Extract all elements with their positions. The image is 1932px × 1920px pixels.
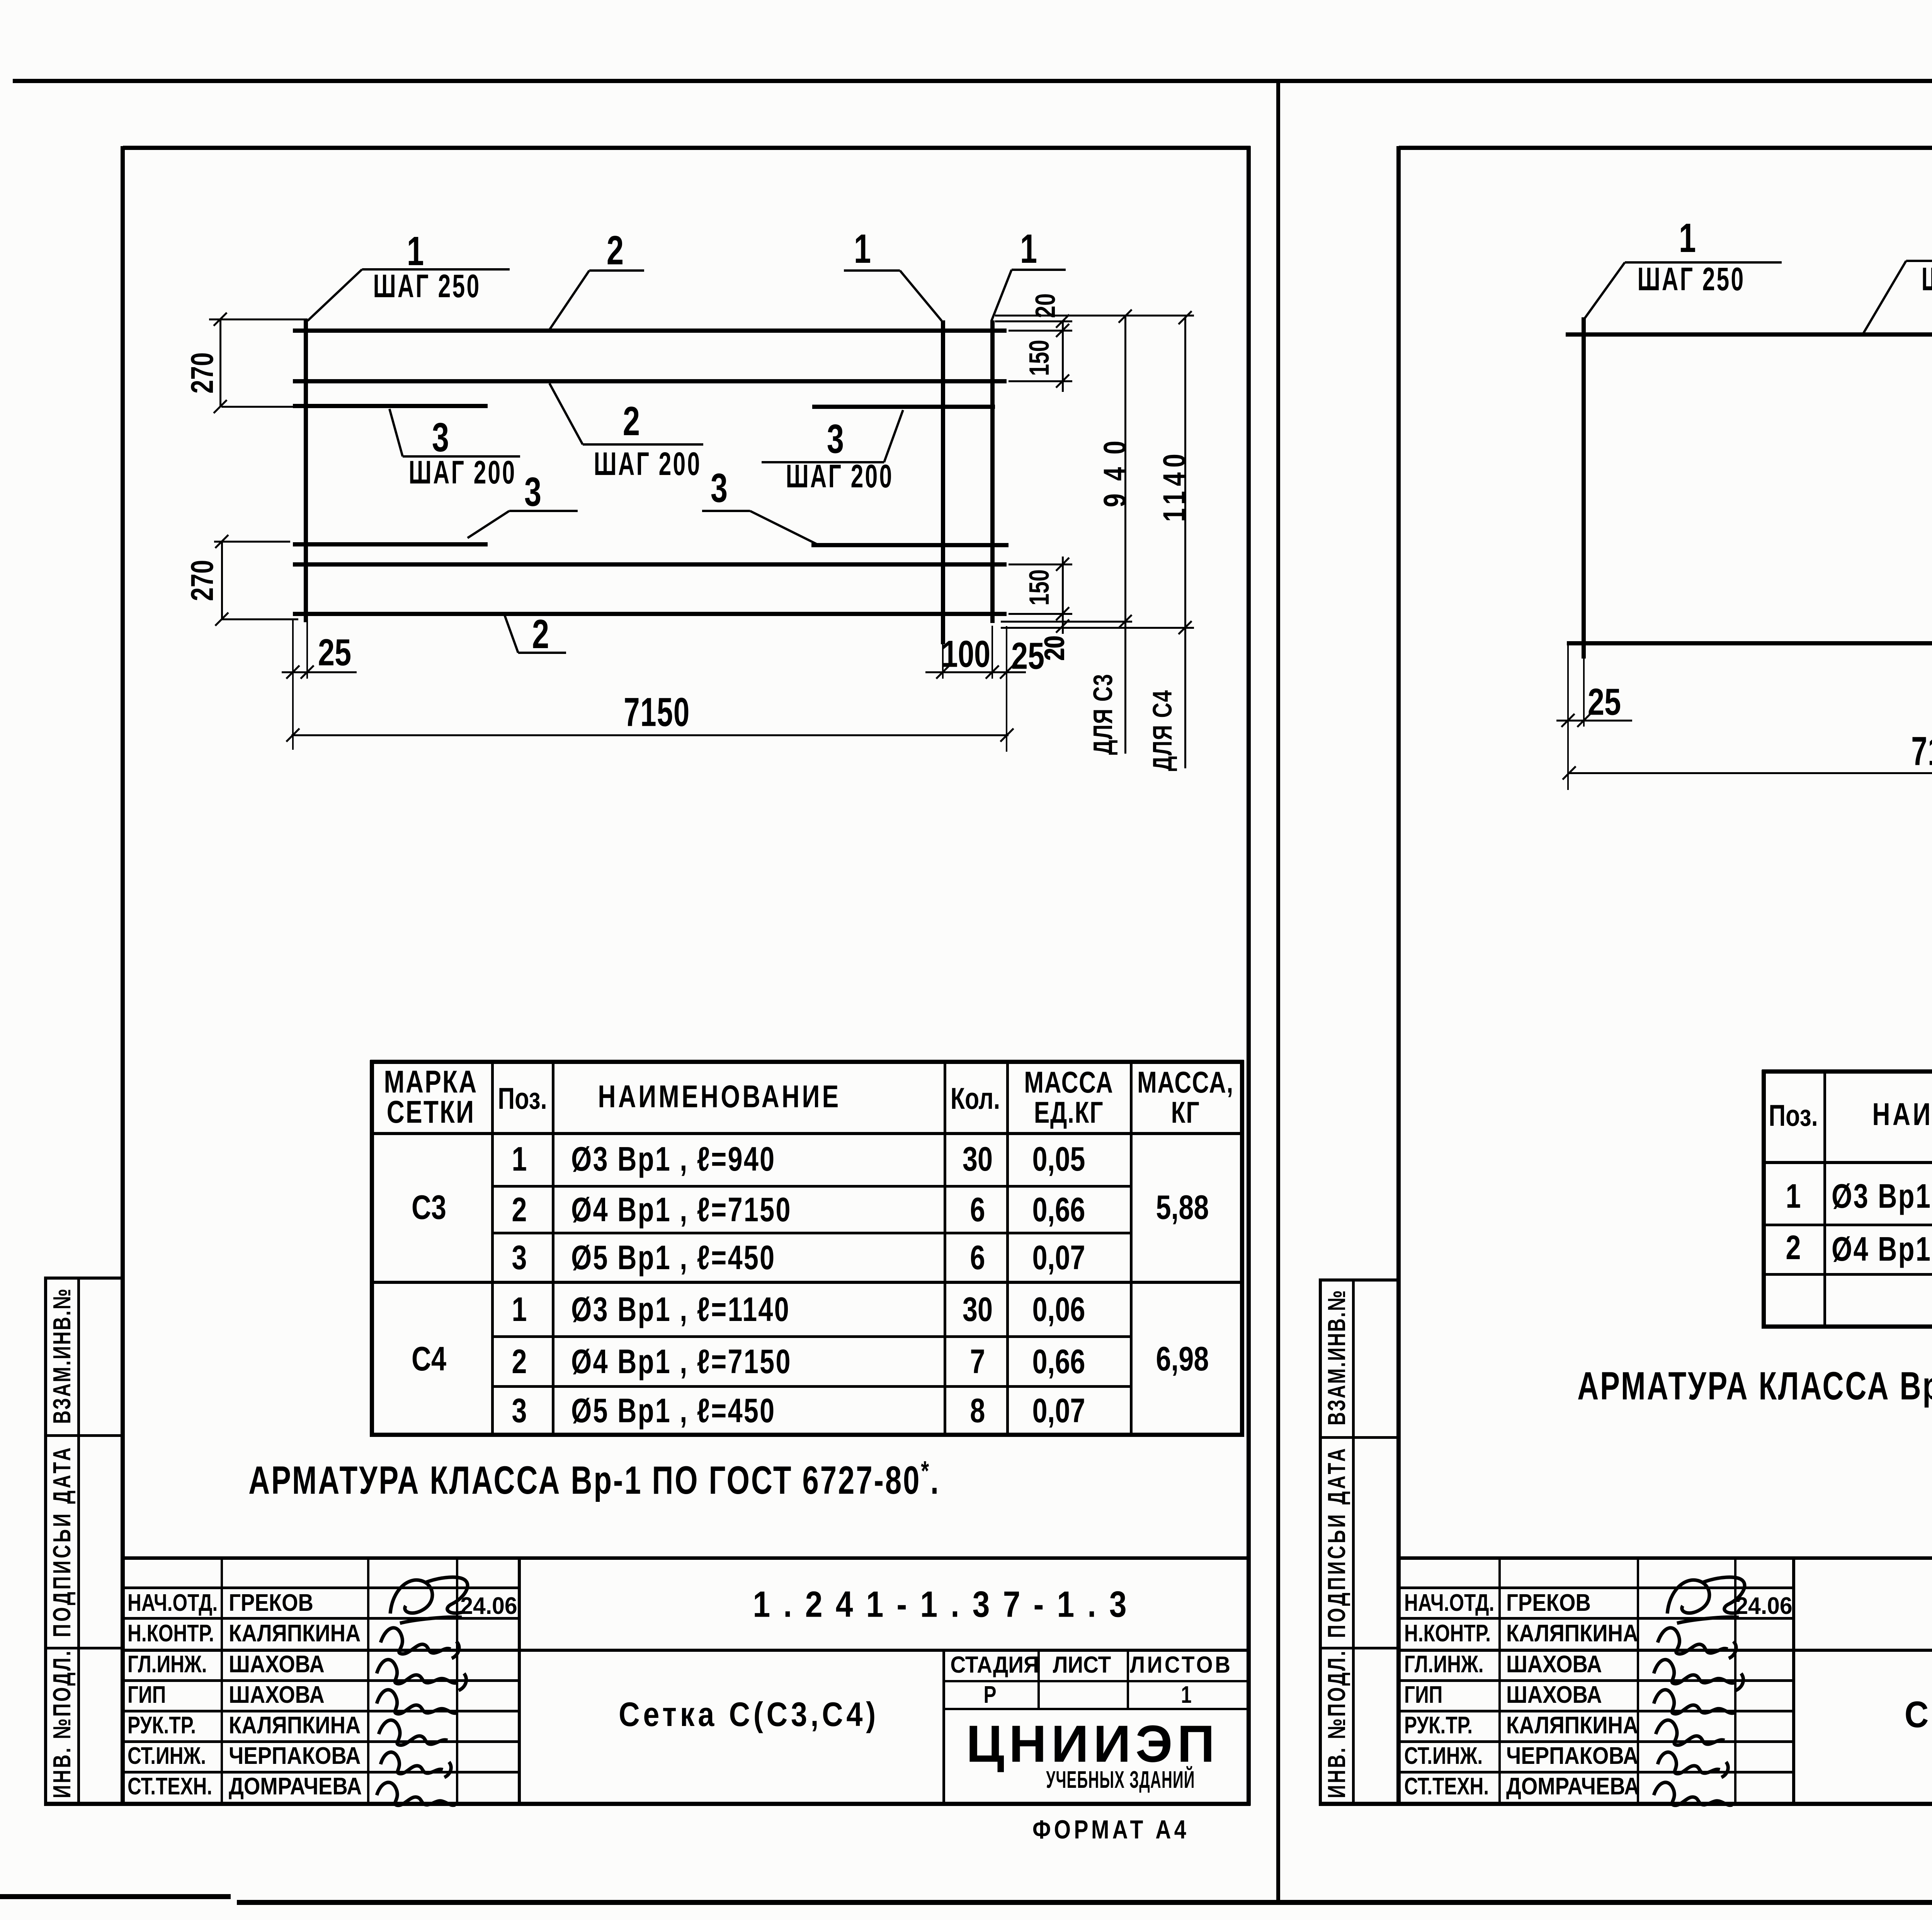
- right wire 1 vertical left: [1582, 317, 1586, 659]
- left leader 3e diagonal: [750, 511, 818, 545]
- right frame left: [1396, 146, 1401, 1806]
- left title row line 3: [123, 1679, 520, 1682]
- left title job СТ.ТЕХН.: [128, 1775, 212, 1799]
- left stadiya value P: [983, 1683, 996, 1707]
- label 2 bottom: [532, 614, 549, 655]
- wire 2 row5 full: [293, 562, 1007, 567]
- dim 1140 text: [1159, 449, 1190, 522]
- right table header line: [1762, 1161, 1932, 1164]
- signature grekov: [390, 1577, 468, 1623]
- dim 100 ext v1: [942, 644, 944, 679]
- scan top border line: [13, 79, 1932, 83]
- left mesh leader diagonal to left wire: [308, 269, 362, 321]
- wire 3 row3 left short: [293, 404, 488, 408]
- table row 3 Ø5 Вр1 , ℓ=450: [512, 1394, 527, 1428]
- right table top: [1762, 1069, 1932, 1074]
- header kol: [951, 1083, 1000, 1113]
- right title job ГЛ.ИНЖ.: [1404, 1653, 1484, 1677]
- dim 25 right ext: [1006, 626, 1007, 752]
- rotated text dlya C3: [1089, 674, 1116, 755]
- left sidebar line podp/inv: [44, 1647, 124, 1649]
- left title row line 4: [123, 1710, 520, 1712]
- table row 1 Ø3 Вр1 , ℓ=1140: [512, 1292, 527, 1326]
- left title name ЧЕРПАКОВА: [229, 1744, 361, 1768]
- left listov value 1: [1181, 1683, 1192, 1707]
- wire 2 row2 full: [293, 379, 1007, 383]
- wire 1 vertical right inner: [941, 320, 945, 644]
- left title job НАЧ.ОТД.: [128, 1591, 218, 1615]
- dim 270 top line: [219, 319, 221, 407]
- left note armatura klassa: [248, 1457, 940, 1500]
- label 1 at v1: [854, 228, 871, 269]
- dim 1140 line: [1184, 317, 1186, 768]
- chain ext top edge: [995, 320, 1072, 322]
- right dim 7150 line: [1568, 772, 1932, 774]
- header massa ed: [1024, 1067, 1113, 1097]
- left table row line r2: [492, 1232, 1132, 1234]
- left title row line 6: [123, 1771, 520, 1774]
- table row 1 Ø3 Вр1 , ℓ=940: [512, 1142, 527, 1176]
- right date 24.06: [1735, 1594, 1792, 1618]
- right title name ДОМРАЧЕВА: [1506, 1775, 1639, 1799]
- right title job СТ.ИНЖ.: [1404, 1744, 1483, 1768]
- dim 25 right text: [1011, 637, 1044, 675]
- right title top line: [1399, 1556, 1932, 1560]
- right frame bottom: [1319, 1802, 1932, 1806]
- left title job СТ.ИНЖ.: [128, 1744, 206, 1768]
- label 3 mid-right: [711, 468, 728, 509]
- sheet divider line: [1276, 80, 1280, 1905]
- group label C4: [412, 1342, 446, 1376]
- right table row 2: [1786, 1231, 1801, 1265]
- left title name ГРЕКОВ: [229, 1591, 313, 1615]
- left frame top: [123, 146, 1250, 150]
- left sidebar text vzam.inv: [49, 1288, 74, 1424]
- right signatures column: [1654, 1577, 1745, 1805]
- left org cniiep: [966, 1718, 1219, 1770]
- left title job ГИП: [128, 1683, 166, 1707]
- right table row line 2: [1762, 1273, 1932, 1276]
- right table bottom: [1762, 1324, 1932, 1329]
- left doc number: [753, 1586, 1139, 1623]
- scan bottom border left segment: [0, 1894, 231, 1899]
- left title name ДОМРАЧЕВА: [229, 1775, 362, 1799]
- left stadiya block left: [942, 1649, 945, 1803]
- right frame top: [1399, 146, 1932, 150]
- dim 20 rotated near 25: [1041, 635, 1068, 660]
- left table header marka: [384, 1066, 478, 1098]
- left table col poz: [552, 1060, 554, 1437]
- table row 2 Ø4 Вр1 , ℓ=7150: [512, 1193, 527, 1227]
- scan bottom border right segment: [237, 1900, 1932, 1905]
- left frame right: [1247, 146, 1251, 1806]
- signature shahova 1: [377, 1660, 466, 1690]
- right table left border: [1762, 1070, 1766, 1329]
- right title row line 5: [1399, 1740, 1795, 1743]
- right title job РУК.ТР.: [1404, 1714, 1473, 1738]
- right title name ЧЕРПАКОВА: [1506, 1744, 1638, 1768]
- left frame bottom: [44, 1802, 1250, 1806]
- mass total C3: [1156, 1190, 1209, 1224]
- signature domracheva: [377, 1782, 455, 1805]
- left sheet title setka: [619, 1697, 879, 1731]
- group label C3: [412, 1190, 446, 1224]
- left table top border: [370, 1060, 1244, 1064]
- right sheet title setka C5: [1905, 1696, 1932, 1733]
- right title job СТ.ТЕХН.: [1404, 1775, 1489, 1799]
- dim 7150 line: [291, 734, 1009, 736]
- left title col 4: [518, 1556, 521, 1803]
- right title job ГИП: [1404, 1683, 1442, 1707]
- left sidebar divider: [77, 1277, 80, 1804]
- wire 2 row6 full: [293, 612, 1007, 616]
- left table row line r4: [492, 1335, 1132, 1338]
- wire 1 vertical left: [304, 320, 308, 622]
- wire 2 row1 full: [293, 329, 1007, 333]
- right title row line 1: [1399, 1586, 1795, 1589]
- left stadiya col listov: [1127, 1649, 1129, 1710]
- left format a4: [1032, 1816, 1189, 1843]
- left title name ШАХОВА: [229, 1653, 325, 1677]
- signature kalyapkina 2 R: [1656, 1720, 1725, 1745]
- left sidebar outer line: [44, 1277, 47, 1804]
- wire 3 row4 right short: [811, 543, 1009, 547]
- chain dim line bottom: [1062, 557, 1064, 634]
- left table col massa: [1130, 1060, 1133, 1437]
- signature grekov R: [1667, 1577, 1745, 1623]
- left title job Н.КОНТР.: [128, 1622, 214, 1646]
- right title col 2: [1637, 1556, 1639, 1803]
- right sidebar vzam.inv: [1324, 1289, 1349, 1426]
- left title row line 5: [123, 1740, 520, 1743]
- right title col 4: [1792, 1556, 1795, 1803]
- signature cherpakova R: [1658, 1752, 1728, 1777]
- signature kalyapkina 2: [379, 1720, 447, 1745]
- chain 150 top text: [1026, 340, 1053, 376]
- left stadiya col list: [1037, 1649, 1040, 1710]
- wire 3 row3 right short: [812, 405, 995, 409]
- left stadiya label: [950, 1653, 1039, 1677]
- right title name ШАХОВА: [1506, 1653, 1602, 1677]
- dim 100 ext v2: [992, 626, 993, 679]
- left stadiya line 1: [942, 1680, 1248, 1682]
- left title job ГЛ.ИНЖ.: [128, 1653, 207, 1677]
- right header naimenovanie: [1872, 1099, 1932, 1130]
- dim 100 text: [942, 635, 990, 673]
- dim 940 text: [1099, 428, 1131, 507]
- left table row line r5: [492, 1385, 1132, 1388]
- left listov label: [1130, 1653, 1232, 1677]
- left table col kol: [1006, 1060, 1009, 1437]
- dim 270 bottom line: [221, 541, 223, 620]
- header naimenovanie: [598, 1081, 841, 1113]
- right sidebar line 1: [1319, 1436, 1398, 1439]
- dim 940 bottom ext: [1001, 621, 1132, 623]
- right title job НАЧ.ОТД.: [1404, 1591, 1494, 1615]
- dim 270 bottom text: [187, 560, 218, 601]
- left leader 2 top diagonal: [549, 271, 589, 331]
- left table group line: [370, 1281, 1244, 1284]
- right title col 1: [1498, 1556, 1501, 1803]
- right wire 2 top: [1566, 332, 1932, 337]
- right title name ШАХОВА: [1506, 1683, 1602, 1707]
- left sidebar line vzam/podp: [44, 1434, 124, 1437]
- left leader 3d diagonal: [468, 511, 509, 538]
- left sidebar top: [44, 1277, 124, 1280]
- signature shahova 1 R: [1654, 1660, 1743, 1690]
- label 1 shag250: [407, 231, 424, 272]
- left title doc line: [123, 1649, 1250, 1652]
- left title col 1: [221, 1556, 223, 1803]
- left list label: [1053, 1653, 1111, 1677]
- right title col 3: [1734, 1556, 1736, 1803]
- left leader 3c diagonal: [884, 410, 903, 462]
- right sidebar divider: [1352, 1278, 1355, 1804]
- right table row line 1: [1762, 1224, 1932, 1226]
- dim 270 top text: [187, 352, 218, 394]
- right dim 25 left text: [1588, 683, 1621, 721]
- left title name КАЛЯПКИНА: [229, 1622, 361, 1646]
- header poz: [498, 1083, 547, 1113]
- left title name КАЛЯПКИНА: [229, 1714, 361, 1738]
- left org uchebnyh: [1046, 1768, 1195, 1792]
- signature kalyapkina 1: [381, 1628, 459, 1658]
- dim 1140 bottom ext: [1001, 627, 1194, 629]
- left title col 3: [456, 1556, 458, 1803]
- signature shahova 2: [377, 1690, 457, 1714]
- signature shahova 2 R: [1654, 1690, 1734, 1714]
- right title doc line: [1399, 1649, 1932, 1652]
- left leader 1 v2 diagonal: [992, 270, 1012, 321]
- label 2 top: [607, 230, 624, 271]
- right title row line 6: [1399, 1771, 1795, 1774]
- right wire 2 bottom: [1567, 641, 1932, 645]
- left table col marka: [491, 1060, 494, 1437]
- signature kalyapkina 1 R: [1658, 1628, 1736, 1658]
- chain 150 bottom text: [1026, 569, 1053, 606]
- right dim 25 left ext: [1567, 643, 1569, 790]
- wire 3 row4 left short: [293, 542, 488, 546]
- chain 20 bottom text: [1041, 636, 1069, 661]
- right note armatura: [1577, 1363, 1932, 1406]
- right sidebar line 2: [1319, 1647, 1398, 1649]
- right title row line 2: [1399, 1617, 1795, 1620]
- left date 24.06: [460, 1594, 517, 1618]
- right title row line 3: [1399, 1679, 1795, 1682]
- left table row line r1: [492, 1185, 1132, 1188]
- right sidebar inv podl: [1324, 1649, 1349, 1798]
- left title row line 2: [123, 1617, 520, 1620]
- left title job РУК.ТР.: [128, 1714, 196, 1738]
- right title name КАЛЯПКИНА: [1506, 1622, 1638, 1646]
- left title row line 1: [123, 1586, 520, 1589]
- label 1 at v2: [1020, 228, 1037, 269]
- right label 1 shag250: [1679, 218, 1696, 259]
- left leader 1 v1 diagonal: [900, 271, 942, 321]
- signature cherpakova: [381, 1752, 451, 1777]
- dim 7150 text: [624, 692, 690, 733]
- left sidebar text inv podl: [49, 1649, 74, 1798]
- right title row line 4: [1399, 1710, 1795, 1712]
- left leader 2 center diagonal: [549, 383, 583, 444]
- dim 25 left text: [318, 634, 351, 671]
- left title name ШАХОВА: [229, 1683, 325, 1707]
- right table row 1: [1786, 1179, 1801, 1213]
- left table bottom border: [370, 1433, 1244, 1437]
- right table col poz: [1823, 1070, 1826, 1329]
- label 3 shag200 left: [432, 417, 449, 458]
- chain dim line top: [1062, 320, 1064, 392]
- wire 1 vertical right outer: [990, 320, 995, 623]
- left title top line: [123, 1556, 1250, 1560]
- label 3 mid-left: [524, 471, 541, 512]
- table row 3 Ø5 Вр1 , ℓ=450: [512, 1241, 527, 1275]
- left title col 2: [367, 1556, 369, 1803]
- table row 2 Ø4 Вр1 , ℓ=7150: [512, 1345, 527, 1379]
- right sidebar top: [1319, 1278, 1398, 1282]
- mass total C4: [1156, 1342, 1209, 1376]
- left leader 3a diagonal: [389, 409, 403, 456]
- dim 25 left ext line: [292, 618, 294, 750]
- left sidebar text podpis i data: [49, 1445, 74, 1637]
- header massa kg: [1137, 1067, 1234, 1097]
- signature domracheva R: [1654, 1782, 1732, 1805]
- label 3 shag200 right: [827, 419, 844, 460]
- right leader 1 diagonal: [1583, 262, 1625, 320]
- left signatures column: [377, 1577, 468, 1805]
- left stadiya line 2: [942, 1708, 1248, 1710]
- right sidebar podpis: [1324, 1446, 1349, 1638]
- dim 940/1140 top ext: [995, 315, 1194, 317]
- left table header line: [370, 1132, 1244, 1135]
- label 2 shag200 center: [623, 401, 640, 442]
- left frame left: [121, 146, 125, 1806]
- right title name ГРЕКОВ: [1506, 1591, 1591, 1615]
- right title job Н.КОНТР.: [1404, 1622, 1491, 1646]
- right title name КАЛЯПКИНА: [1506, 1714, 1638, 1738]
- right leader 2 diagonal: [1863, 261, 1906, 334]
- rotated text dlya C4: [1149, 690, 1176, 771]
- chain 20 top text: [1032, 293, 1060, 318]
- left table left border: [370, 1060, 374, 1437]
- left table col naimen: [944, 1060, 946, 1437]
- dim 940 line: [1124, 315, 1126, 754]
- right dim 7150 text: [1911, 731, 1932, 772]
- left table right border: [1240, 1060, 1244, 1437]
- right header poz: [1769, 1100, 1818, 1130]
- right sidebar outer line: [1319, 1278, 1322, 1804]
- left leader 2 bottom diagonal: [505, 615, 518, 653]
